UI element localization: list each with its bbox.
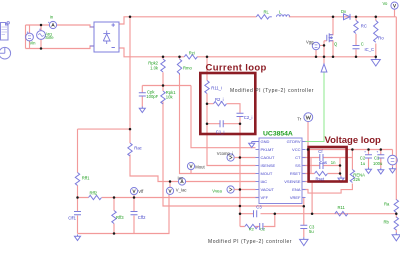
svg-text:VCC: VCC (292, 147, 301, 152)
chip pin stubs right (302, 142, 306, 198)
svg-text:VAOUT: VAOUT (261, 187, 275, 192)
dc source Vcc (388, 155, 398, 165)
svg-text:Modified PI (Type-2) controlle: Modified PI (Type-2) controller (208, 239, 292, 245)
probe Vcomp_i (227, 154, 240, 161)
capacitor C2 lower branch (260, 223, 263, 230)
wire: C2 supply cap branch (368, 150, 370, 168)
svg-text:Modified PI (Type-2) controlle: Modified PI (Type-2) controller (230, 88, 314, 94)
wire: Cff2 branch (133, 198, 135, 234)
document icon (schematic page symbol) (1, 22, 10, 40)
capacitor C1_i (220, 120, 223, 127)
svg-text:1.0k: 1.0k (150, 65, 159, 70)
wire: Cpk branch (141, 86, 143, 107)
wire: VSENSE pin down to divider (303, 182, 313, 214)
probe Tr (304, 113, 313, 122)
wire: divider Ra Rb (395, 212, 397, 232)
ground below Rb (392, 233, 400, 241)
resistor Rpk2 (161, 59, 165, 72)
svg-text:GTDRV: GTDRV (287, 139, 301, 144)
svg-text:C2: C2 (260, 227, 266, 232)
ground below C3 (300, 237, 308, 245)
svg-text:1u: 1u (361, 161, 366, 166)
probe Vvea (227, 186, 240, 193)
sine source Arg (37, 28, 46, 39)
wire: bridge - output to bottom rail (119, 48, 184, 57)
svg-text:IC_C: IC_C (365, 47, 375, 52)
svg-text:Rb: Rb (384, 220, 390, 225)
svg-text:Tr: Tr (297, 117, 301, 122)
capacitor C3 VREF bypass (300, 225, 307, 228)
resistor R2_i (214, 102, 227, 106)
svg-text:Rset: Rset (316, 176, 325, 181)
svg-text:100pF: 100pF (146, 94, 158, 99)
wire: VFF row from Rff1 to chip (78, 197, 260, 199)
wire: Ro branch (375, 17, 377, 57)
wire: bottom RC lower branch (240, 214, 275, 227)
svg-text:Rci: Rci (189, 50, 195, 55)
wire: Rpk2 branch from bottom rail (162, 57, 164, 91)
svg-text:RL: RL (264, 10, 270, 15)
svg-text:C2_i: C2_i (244, 115, 253, 120)
voltmeter probe V_Iac (166, 187, 173, 194)
wire: VREF pin down to C3 (303, 198, 304, 238)
capacitor Cpk (139, 93, 146, 96)
resistor Rpk1 (161, 91, 165, 104)
wire: Rff3 branch (113, 198, 115, 234)
ground at chip GND pin (249, 142, 259, 148)
wire: gate node to bottom rail (323, 45, 325, 56)
capacitor Cff1 (74, 212, 81, 215)
resistor Rmo (177, 59, 181, 75)
resistor Rset (315, 171, 328, 175)
wire: V_Iac probe stub (169, 182, 171, 188)
svg-text:MOUT: MOUT (261, 171, 273, 176)
gate source Vgg (312, 42, 319, 49)
svg-text:C3: C3 (256, 205, 262, 210)
wire: Vo probe stub (394, 9, 396, 17)
current loop compensator resistor R11_i (205, 81, 209, 94)
wire: VFF probe stub (133, 195, 135, 198)
svg-text:Vcomp_i: Vcomp_i (217, 151, 233, 156)
svg-text:Vin: Vin (30, 40, 37, 45)
wire: Mout probe stub (190, 170, 192, 174)
wire: MOSFET source to bottom rail (329, 41, 333, 57)
node: gate wire arrow (321, 64, 327, 72)
svg-text:VFF: VFF (261, 195, 269, 200)
ground below Cpk (139, 107, 145, 113)
capacitor Cff2 (131, 212, 138, 215)
svg-text:5u: 5u (309, 229, 314, 234)
wire: Rmo branch to MOUT row (180, 57, 256, 174)
wire: top rail from inductor to right edge (289, 16, 397, 18)
wire: C1_i bottom row inside box (207, 123, 240, 125)
wire: Rpk1 to PKLMT net (163, 102, 304, 207)
svg-text:V_Iac: V_Iac (176, 187, 187, 192)
wire: feedforward ground rail (78, 195, 170, 234)
resistor RENA (350, 170, 354, 183)
resistor Rff2 (89, 195, 102, 199)
wire: bottom rail after Rci (197, 56, 376, 58)
svg-text:Cas: Cas (320, 160, 327, 165)
resistor R2 lower branch (245, 224, 258, 228)
wire: Vgg source bottom stub (315, 50, 317, 57)
diode Dv (344, 14, 351, 20)
wire: AC source loop left vertical (25, 25, 27, 49)
inductor L (277, 15, 290, 17)
wire: VAOUT net bottom RC left branch (240, 213, 275, 215)
svg-text:100u: 100u (373, 161, 383, 166)
svg-text:Ro: Ro (378, 35, 384, 40)
ground below C1 (378, 168, 384, 174)
op-amp chip U1 UC3854A outline (259, 138, 302, 204)
ground below Cff1 (75, 235, 81, 241)
svg-text:Voltage loop: Voltage loop (325, 135, 381, 146)
svg-text:CAOUT: CAOUT (261, 155, 276, 160)
svg-text:GND: GND (261, 139, 270, 144)
wire: Vin source stubs (29, 25, 31, 49)
capacitor C2 supply (364, 151, 372, 158)
svg-text:Vvea: Vvea (212, 188, 222, 193)
svg-text:C: C (361, 42, 364, 47)
svg-text:C1: C1 (374, 155, 380, 160)
svg-text:Vo: Vo (383, 1, 389, 6)
resistor Ra (394, 200, 398, 213)
capacitor C2_i (237, 113, 244, 116)
wire: bridge + output to top rail (119, 17, 256, 24)
wire: CAOUT pin wire (234, 157, 255, 159)
clock icon (0, 47, 11, 59)
svg-text:Rff2: Rff2 (90, 190, 98, 195)
svg-text:Rff3: Rff3 (116, 215, 124, 220)
svg-text:UC3854A: UC3854A (263, 131, 293, 138)
resistor R11 (335, 212, 348, 216)
svg-text:SS: SS (295, 163, 301, 168)
resistor RL (256, 15, 272, 19)
wire: AC source loop top rail (26, 24, 50, 26)
voltage loop annotation box (309, 147, 347, 182)
svg-text:Vff: Vff (138, 189, 144, 194)
resistor Rff1 (75, 173, 79, 186)
resistor Rff3 (112, 211, 116, 224)
ground below Vcc (390, 167, 396, 173)
svg-text:Vgg: Vgg (306, 39, 314, 44)
svg-text:VREF: VREF (290, 195, 301, 200)
svg-text:Current loop: Current loop (206, 63, 267, 74)
wire: gate arrow stub on bottom rail (323, 57, 325, 64)
svg-text:Dv: Dv (341, 9, 347, 14)
wire: R11_i branch from bottom rail into current loop box (207, 57, 256, 166)
svg-text:Sine: Sine (45, 35, 54, 40)
chip pin labels right (284, 139, 301, 200)
svg-text:1n: 1n (331, 160, 336, 165)
wire: C1 supply cap branch (380, 150, 382, 169)
svg-text:Mout: Mout (195, 164, 205, 169)
wire: Tr probe vertical to VCC pin (307, 122, 309, 150)
svg-text:PKLMT: PKLMT (261, 147, 275, 152)
resistor RC (354, 21, 358, 34)
svg-text:C1_i: C1_i (216, 129, 225, 134)
svg-text:R2: R2 (249, 227, 255, 232)
wire: Rpk junction horizontal to Cpk (142, 85, 191, 87)
svg-text:Rmo: Rmo (183, 66, 193, 71)
ammeter probe in (48, 21, 57, 28)
wire: output sense line right edge down (395, 17, 397, 200)
wire: Vgg source to gate node (320, 41, 327, 46)
bridge rectifier (90, 22, 119, 52)
wire: RENA bottom to ENA pin (303, 184, 353, 194)
resistor Rci (184, 55, 197, 59)
wire: Rac top connection (129, 129, 131, 143)
resistor Rb (394, 217, 398, 230)
wire: CT pin to Cf (303, 157, 341, 159)
wire: Rac line bottom jog to IAC row (130, 155, 178, 182)
wire: VSENSE net to divider junction (275, 213, 397, 215)
wire: IAC row ammeter to chip (186, 181, 256, 183)
wire: RENA top link (340, 150, 352, 170)
svg-text:Cff1: Cff1 (68, 216, 76, 221)
voltmeter probe Vo (391, 2, 398, 9)
svg-text:Rff1: Rff1 (82, 175, 90, 180)
wire: top rail drop at x130 (129, 17, 131, 129)
wire: sine source stubs (40, 25, 42, 49)
voltage source Vin (26, 31, 34, 40)
svg-text:Rac: Rac (134, 146, 141, 151)
wire: ammeter to bridge top input (57, 25, 94, 27)
wire: R2_i row inside box (207, 104, 240, 114)
svg-text:ISENSE: ISENSE (261, 163, 276, 168)
svg-text:VSENSE: VSENSE (284, 179, 301, 184)
svg-text:10k: 10k (166, 95, 174, 100)
ammeter probe Iac (178, 178, 185, 185)
current loop annotation box (200, 73, 255, 134)
transistor Q MOSFET (327, 33, 333, 42)
wire: Cff1 branch down to ground (77, 198, 79, 234)
resistor Rac (128, 143, 132, 156)
svg-text:R2_i: R2_i (215, 97, 224, 102)
svg-text:R11_i: R11_i (211, 86, 222, 91)
resistor Ro (374, 21, 378, 43)
wire: VAOUT row probe to chip (234, 189, 255, 191)
svg-text:C2: C2 (360, 155, 366, 160)
svg-text:CT: CT (295, 155, 301, 160)
capacitor C1 supply (377, 151, 385, 158)
wire: MOSFET drain to top rail (329, 17, 333, 35)
svg-text:RSET: RSET (290, 171, 301, 176)
capacitor Cf (320, 154, 323, 161)
wire: snubber RC branch (355, 17, 357, 57)
voltmeter probe Mout (187, 163, 194, 170)
svg-text:RC: RC (361, 24, 367, 29)
ground main output (371, 58, 380, 67)
wire: PKLMT wire from Cpk node (191, 86, 256, 148)
wire: Rff1 vertical from y129 (77, 129, 79, 197)
svg-text:Cff2: Cff2 (138, 215, 146, 220)
capacitor C (353, 46, 360, 49)
wire: Vcc source stub (392, 150, 394, 168)
wire: feedforward branch horizontal y129 (78, 128, 131, 130)
ground below C2 (366, 168, 372, 174)
wire: box node verticals (311, 158, 341, 177)
ground in voltage loop box (338, 176, 344, 182)
svg-text:R11: R11 (338, 205, 346, 210)
wire: green gate drive from GTDRV (303, 72, 325, 141)
svg-text:ENA: ENA (292, 187, 301, 192)
svg-text:Iac: Iac (178, 175, 184, 180)
wire: AC source loop bottom rail to bridge (26, 46, 95, 49)
wire: compensator output down CAOUT VAOUT (239, 117, 241, 227)
wire: VCC rail to supply caps (307, 149, 393, 151)
wire: SS pin to Cas (303, 165, 341, 167)
wire: RSET pin to Rset (303, 173, 341, 175)
chip pin stubs left (256, 142, 260, 198)
svg-text:Ra: Ra (384, 202, 390, 207)
capacitor C3 on VAOUT net (254, 210, 257, 217)
svg-text:IAC: IAC (261, 179, 268, 184)
voltmeter probe VFF (130, 188, 137, 195)
chip pin labels left (261, 139, 276, 200)
capacitor Cas (320, 162, 323, 169)
svg-text:22k: 22k (353, 177, 361, 182)
